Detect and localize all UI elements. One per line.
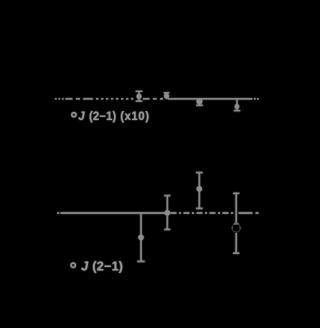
bottom panel dash-dot segment: [171, 212, 234, 214]
soft scan-blur halo layer: [55, 91, 259, 273]
bottom data point B2 marker: [165, 210, 171, 216]
bottom data point B1 error bar: [137, 213, 145, 261]
top data point P2 marker: [164, 93, 169, 98]
top data point P2 error bar: [164, 93, 170, 99]
svg-text:(2−1): (2−1): [92, 258, 123, 273]
svg-text:J: J: [81, 258, 89, 273]
bottom panel line start dot: [57, 212, 258, 214]
top data point P3 marker: [196, 99, 202, 105]
top panel right end dots: [254, 98, 259, 100]
top panel dashed segment: [66, 98, 94, 100]
bottom panel right end dash: [256, 212, 259, 214]
top legend marker open circle: [72, 113, 76, 117]
top panel solid segment: [168, 98, 253, 100]
svg-text:J: J: [78, 111, 85, 123]
bottom panel solid segment: [61, 212, 166, 214]
top panel ratio=1 dash-dot line left dots: [55, 98, 259, 100]
top data point P1 error bar: [136, 91, 143, 101]
top data point P1 marker: [136, 94, 141, 99]
top data point P4 error bar: [234, 99, 241, 110]
bottom data point B4 open circle side arcs: [232, 227, 240, 229]
svg-text:(2−1): (2−1): [89, 111, 116, 123]
bottom data point B1 marker: [138, 235, 144, 241]
top data point P4 marker: [235, 104, 240, 109]
top data point P3 error bar: [196, 99, 203, 106]
svg-text:(x10): (x10): [120, 111, 149, 123]
bottom data point B4 error bar upper segment: [233, 193, 239, 253]
top panel dotted segment: [96, 98, 133, 100]
bottom data point B3 marker: [197, 186, 203, 192]
bottom data point B2 error bar: [164, 196, 170, 230]
bottom data point B3 error bar: [196, 173, 203, 209]
bottom data point B4 open circle top arc tick: [234, 223, 239, 225]
bottom panel right solid segment: [239, 212, 253, 214]
bottom data point B4 open circle marker: [232, 224, 240, 232]
top panel dashes between P1 and P2: [143, 98, 163, 100]
bottom legend marker open circle: [71, 263, 75, 267]
bottom data point B4 error bar lower segment: [233, 233, 239, 253]
